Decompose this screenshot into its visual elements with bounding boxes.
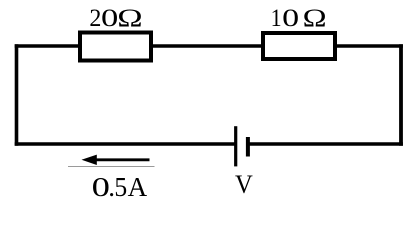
svg-text:0: 0 [282,5,299,32]
battery V: short plate [246,137,250,157]
resistor R1 box (20 ohm) [80,33,151,61]
gray underline [68,166,155,168]
svg-text:A: A [128,172,148,202]
current arrow head [82,155,97,165]
svg-text:5: 5 [114,172,127,202]
svg-text:Ω: Ω [117,5,142,32]
battery V: long plate [234,126,237,166]
svg-text:0: 0 [101,5,118,32]
wire: bottom right segment (battery to corner) [250,142,403,145]
wire: bottom left segment (corner to battery) [15,142,236,145]
svg-text:1: 1 [271,5,282,32]
svg-text:Ω: Ω [303,5,327,32]
wire: left side of loop [15,44,19,145]
wire: right side of loop [399,44,403,145]
svg-text:V: V [235,169,253,199]
svg-text:0: 0 [92,172,110,202]
resistor R2 box (10 ohm) [263,33,335,59]
wire: top side of loop [15,44,403,47]
svg-text:2: 2 [89,5,101,32]
current arrow shaft [96,158,150,161]
